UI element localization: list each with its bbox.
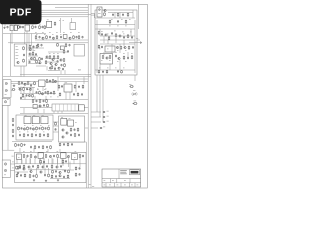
capacitor C68 bbox=[115, 55, 117, 58]
capacitor C82 bbox=[64, 170, 66, 173]
capacitor C89 bbox=[79, 173, 81, 176]
capacitor C38 bbox=[39, 127, 41, 130]
resistor R26 bbox=[39, 57, 41, 61]
strip end block bbox=[79, 105, 85, 111]
transistor Q8 bbox=[52, 58, 54, 60]
value label bbox=[125, 60, 127, 63]
wire drop bbox=[29, 87, 31, 93]
value label bbox=[124, 179, 126, 182]
resistor R62 bbox=[70, 128, 72, 132]
transistor Q14 bbox=[24, 83, 26, 85]
resistor R9 bbox=[34, 57, 36, 61]
capacitor C64 bbox=[123, 36, 125, 39]
capacitor C56 bbox=[103, 111, 106, 113]
value label bbox=[48, 124, 50, 127]
resistor R92 bbox=[57, 154, 59, 158]
transistor Q26 bbox=[119, 35, 121, 37]
value label bbox=[129, 18, 131, 21]
transistor Q4 bbox=[42, 37, 44, 39]
capacitor C53 bbox=[55, 128, 57, 131]
value label bbox=[37, 88, 39, 91]
value label bbox=[16, 57, 18, 60]
wire band drop bbox=[57, 158, 59, 166]
wire top bus 2 bbox=[3, 11, 88, 13]
wire row1 drop bbox=[4, 25, 6, 27]
wire amp top rail bbox=[108, 12, 133, 14]
resistor R16 bbox=[73, 35, 75, 39]
wire stage link bbox=[48, 70, 60, 72]
wire supply stub bbox=[137, 39, 140, 41]
wire bus tap bbox=[91, 121, 101, 123]
capacitor C59 bbox=[117, 20, 119, 23]
wire jack lead bbox=[11, 83, 18, 85]
resistor R113 bbox=[63, 50, 65, 54]
resistor R74 bbox=[98, 31, 100, 35]
resistor R72 bbox=[117, 13, 119, 17]
resistor R3 bbox=[54, 22, 56, 26]
capacitor C44 bbox=[12, 124, 14, 127]
transistor Q7 bbox=[46, 56, 48, 58]
capacitor C37 bbox=[30, 127, 32, 130]
wire cluster rail bbox=[36, 65, 46, 67]
resistor R51 bbox=[23, 133, 25, 137]
value label bbox=[26, 156, 28, 159]
resistor R52 bbox=[31, 133, 33, 137]
value label bbox=[124, 184, 126, 187]
ground bbox=[23, 144, 25, 146]
IC U3 bbox=[63, 35, 67, 39]
wire box feed bbox=[53, 131, 59, 133]
resistor R60 bbox=[42, 145, 44, 149]
value label bbox=[49, 52, 51, 55]
capacitor C28 bbox=[50, 92, 52, 95]
capacitor C30 bbox=[20, 97, 22, 100]
capacitor C14 bbox=[41, 44, 43, 47]
resistor R117 bbox=[62, 160, 64, 164]
capacitor C4 bbox=[7, 26, 9, 29]
resistor R10 bbox=[36, 60, 38, 64]
resistor R24 bbox=[63, 58, 65, 62]
capacitor C35 bbox=[43, 104, 45, 107]
wire stub bbox=[59, 18, 61, 33]
wire drop bbox=[103, 52, 105, 55]
capacitor C97 bbox=[100, 127, 103, 129]
resistor R49 bbox=[42, 126, 44, 130]
wire bus tap bbox=[91, 116, 101, 118]
capacitor C13 bbox=[76, 36, 78, 39]
wire drop bbox=[60, 70, 62, 74]
capacitor C90 bbox=[33, 45, 35, 48]
value label bbox=[61, 116, 63, 119]
wire drop bbox=[42, 86, 44, 91]
value label bbox=[29, 80, 31, 83]
capacitor C12 bbox=[82, 36, 84, 39]
title block divider bbox=[134, 183, 136, 187]
title block divider bbox=[129, 183, 131, 187]
transistor Q10 bbox=[55, 63, 57, 65]
wire drop bbox=[24, 96, 26, 100]
value label bbox=[24, 114, 26, 117]
capacitor C32 bbox=[81, 93, 83, 96]
resistor R67 bbox=[67, 143, 69, 147]
resistor R105 bbox=[24, 173, 26, 177]
wire band drop bbox=[25, 158, 27, 164]
title block row line bbox=[102, 178, 141, 180]
value label bbox=[111, 18, 113, 21]
transistor Q12 bbox=[58, 67, 60, 69]
value label bbox=[117, 49, 119, 52]
title block divider bbox=[129, 179, 131, 183]
resistor R45 bbox=[47, 103, 49, 107]
capacitor C20 bbox=[41, 57, 43, 60]
transistor Q41 bbox=[59, 175, 61, 177]
value label bbox=[12, 167, 14, 170]
title block frame bbox=[102, 169, 141, 187]
value label bbox=[137, 184, 139, 187]
wire band drop bbox=[73, 160, 75, 164]
wire band drop bbox=[69, 162, 71, 171]
value label bbox=[89, 183, 91, 186]
wire stub bbox=[93, 14, 95, 18]
value label bbox=[56, 31, 58, 34]
value label bbox=[52, 33, 54, 36]
wire drop bbox=[132, 10, 134, 18]
wire drop bbox=[107, 40, 109, 44]
value label bbox=[107, 115, 109, 118]
wire mid rail c bbox=[18, 87, 35, 89]
wire drop bbox=[75, 82, 77, 92]
wire divider 1 bbox=[20, 73, 91, 75]
wire amp rail 1 bbox=[95, 17, 135, 19]
resistor R12 bbox=[46, 35, 48, 39]
wire box feed bbox=[53, 125, 59, 127]
capacitor C50 bbox=[74, 128, 76, 131]
value label bbox=[101, 30, 103, 33]
wire drop bbox=[99, 29, 101, 36]
resistor R102 bbox=[17, 166, 19, 170]
wire drop bbox=[23, 66, 25, 77]
wire drop bbox=[123, 40, 125, 46]
resistor R53 bbox=[39, 133, 41, 137]
wire drop bbox=[45, 96, 47, 100]
value label bbox=[125, 25, 127, 28]
wire band drop bbox=[36, 168, 38, 174]
wire divider 4 bbox=[3, 81, 88, 83]
transistor Q13 bbox=[39, 62, 41, 64]
resistor R86 bbox=[106, 70, 108, 74]
relay K8 bbox=[72, 154, 78, 160]
resistor R63 bbox=[77, 128, 79, 132]
preamp section box bbox=[16, 115, 53, 140]
capacitor C5 bbox=[22, 26, 24, 29]
capacitor C33 bbox=[36, 100, 38, 103]
value label bbox=[74, 156, 76, 159]
value label bbox=[47, 19, 49, 22]
resistor R115 bbox=[58, 85, 60, 89]
capacitor C63 bbox=[111, 32, 113, 35]
output stage section box bbox=[15, 152, 86, 182]
capacitor C69 bbox=[127, 57, 129, 60]
relay K3 bbox=[70, 23, 76, 30]
resistor R110 bbox=[29, 45, 31, 49]
IC U4 bbox=[60, 46, 64, 50]
ground bbox=[3, 27, 5, 29]
IC U6 bbox=[64, 84, 72, 92]
wire drop bbox=[54, 67, 56, 71]
value label bbox=[34, 49, 36, 52]
value label bbox=[107, 33, 109, 36]
wire link bbox=[20, 107, 52, 109]
value label bbox=[99, 48, 101, 51]
capacitor C34 bbox=[43, 100, 45, 103]
resistor R29 bbox=[27, 81, 29, 85]
resistor R93 bbox=[79, 154, 81, 158]
value label bbox=[117, 184, 119, 187]
capacitor C36 bbox=[21, 127, 23, 130]
resistor R101 bbox=[68, 169, 70, 173]
value label bbox=[16, 51, 18, 54]
title block divider bbox=[105, 183, 107, 187]
wire drop from amp bbox=[102, 75, 104, 122]
strip divider pin 5 bbox=[70, 104, 72, 111]
relay K7 bbox=[61, 153, 67, 159]
wire amp low rail bbox=[95, 69, 135, 71]
resistor R77 bbox=[127, 34, 129, 38]
driver section box bbox=[59, 116, 85, 142]
wire drop bbox=[37, 109, 39, 113]
capacitor C55 bbox=[71, 143, 73, 146]
value label bbox=[130, 31, 132, 34]
capacitor C19 bbox=[62, 68, 64, 71]
capacitor C2 bbox=[35, 26, 37, 29]
resistor R59 bbox=[34, 145, 36, 149]
transistor Q16 bbox=[41, 93, 43, 95]
resistor R108 bbox=[75, 166, 77, 170]
wire jack lead bbox=[11, 90, 12, 92]
transistor Q5 bbox=[52, 37, 54, 39]
value label bbox=[59, 19, 61, 22]
svg-text:TP: TP bbox=[78, 69, 81, 72]
value label bbox=[107, 48, 109, 51]
wire chain bbox=[8, 42, 88, 44]
capacitor C15 bbox=[57, 60, 59, 63]
wire drop bbox=[28, 34, 30, 51]
wire cluster rail bbox=[28, 63, 40, 65]
transistor Q35 bbox=[42, 166, 44, 168]
relay K1 bbox=[10, 25, 13, 30]
resistor R94 bbox=[23, 165, 25, 169]
transistor Q3 bbox=[30, 57, 32, 59]
PDF badge bbox=[0, 0, 42, 24]
value label bbox=[4, 174, 6, 177]
value label bbox=[107, 120, 109, 123]
resistor R103 bbox=[16, 166, 18, 170]
value label bbox=[36, 33, 38, 36]
value label bbox=[63, 19, 65, 22]
power flag +V bbox=[141, 42, 142, 44]
transistor Q32 bbox=[49, 155, 51, 157]
title block divider bbox=[110, 179, 112, 183]
value label bbox=[5, 93, 7, 96]
transistor Q22 bbox=[66, 132, 68, 134]
wire band drop bbox=[21, 160, 23, 164]
resistor R81 bbox=[102, 55, 104, 59]
resistor R54 bbox=[47, 133, 49, 137]
wire band comb bbox=[39, 159, 41, 164]
resistor R83 bbox=[123, 56, 125, 60]
wire band link bbox=[62, 169, 74, 171]
resistor R14 bbox=[64, 35, 66, 39]
connector J3 bbox=[4, 101, 6, 103]
transistor Q40 bbox=[23, 168, 25, 170]
wire drop bbox=[119, 44, 121, 53]
value label bbox=[32, 23, 34, 26]
value label bbox=[18, 156, 20, 159]
value label bbox=[123, 67, 125, 70]
value label bbox=[58, 156, 60, 159]
value label bbox=[53, 52, 55, 55]
value label bbox=[24, 124, 26, 127]
value label bbox=[30, 150, 32, 153]
value label bbox=[33, 114, 35, 117]
wire cluster rail bbox=[45, 58, 59, 60]
value label bbox=[109, 25, 111, 28]
value label bbox=[32, 124, 34, 127]
resistor R80 bbox=[98, 45, 100, 49]
wire chain rail bbox=[35, 39, 88, 41]
value label bbox=[40, 105, 42, 108]
resistor R8 bbox=[32, 52, 34, 56]
capacitor C73 bbox=[53, 155, 55, 158]
value label bbox=[44, 88, 46, 91]
value label bbox=[117, 25, 119, 28]
wire bus tap bbox=[91, 111, 101, 113]
wire band drop bbox=[68, 158, 70, 167]
capacitor C39 bbox=[45, 127, 47, 130]
resistor R32 bbox=[52, 79, 54, 83]
capacitor C60 bbox=[112, 13, 114, 16]
wire feed from above bbox=[19, 148, 21, 152]
wire drop bbox=[119, 13, 121, 19]
resistor R87 bbox=[121, 70, 123, 74]
resistor R73 bbox=[127, 13, 129, 17]
wire duct bottom bbox=[2, 149, 14, 151]
capacitor C94 bbox=[61, 85, 63, 88]
wire bus link bbox=[91, 13, 95, 15]
IC U10 bbox=[41, 117, 48, 124]
value label bbox=[7, 98, 9, 101]
transistor Q24 bbox=[104, 9, 106, 11]
wire band drop bbox=[29, 158, 31, 164]
wire drop bbox=[57, 111, 59, 113]
wire band low rail bbox=[50, 178, 70, 180]
resistor R106 bbox=[51, 174, 53, 178]
wire stub bbox=[128, 86, 131, 88]
wire band comb bbox=[21, 159, 23, 164]
wire band rail low bbox=[15, 171, 28, 173]
wire cluster rail bbox=[28, 55, 38, 57]
value label bbox=[134, 100, 137, 103]
value label bbox=[104, 179, 106, 182]
IC U11 bbox=[61, 118, 67, 125]
IC U5 bbox=[39, 80, 46, 87]
resistor R76 bbox=[115, 33, 117, 37]
wire amp mid rail bbox=[100, 43, 135, 45]
capacitor C85 bbox=[20, 174, 22, 177]
capacitor C46 bbox=[18, 144, 20, 147]
wire bottom-left bus rail bbox=[85, 142, 87, 188]
value label bbox=[45, 88, 47, 91]
wire drop bbox=[20, 87, 22, 94]
capacitor C24 bbox=[49, 80, 51, 83]
transistor Q34 bbox=[28, 166, 30, 168]
wire mid band rail bbox=[20, 99, 88, 101]
wire drop bbox=[69, 92, 71, 100]
wire band drop bbox=[48, 168, 50, 174]
resistor R75 bbox=[108, 36, 110, 40]
wire drop bbox=[46, 66, 48, 71]
resistor R65 bbox=[55, 122, 57, 126]
capacitor C71 bbox=[117, 70, 119, 73]
capacitor C88 bbox=[79, 167, 81, 170]
relay K4 bbox=[74, 44, 84, 56]
relay K6 bbox=[38, 153, 44, 159]
transistor Q31 bbox=[34, 156, 36, 158]
value label bbox=[12, 155, 14, 158]
resistor R34 bbox=[82, 85, 84, 89]
capacitor C45 bbox=[12, 135, 14, 138]
capacitor C91 bbox=[69, 44, 71, 47]
wire band drop bbox=[51, 158, 53, 166]
capacitor C77 bbox=[46, 165, 48, 168]
logo box bbox=[130, 170, 140, 175]
wire feed from above bbox=[47, 149, 49, 152]
resistor R27 bbox=[12, 89, 16, 91]
value label bbox=[131, 184, 133, 187]
value label bbox=[46, 150, 48, 153]
capacitor C61 bbox=[122, 13, 124, 16]
value label bbox=[99, 33, 101, 36]
connector J5 bbox=[4, 163, 6, 165]
value label bbox=[42, 156, 44, 159]
resistor R99 bbox=[48, 173, 50, 177]
value label bbox=[29, 49, 31, 52]
value label bbox=[60, 33, 62, 36]
wire amp rail 3 bbox=[95, 28, 135, 30]
capacitor C52 bbox=[78, 134, 80, 137]
wire band comb bbox=[43, 159, 45, 164]
wire mid seg bbox=[46, 82, 56, 84]
value label bbox=[123, 52, 125, 55]
capacitor C49 bbox=[46, 146, 48, 149]
value label bbox=[42, 114, 44, 117]
capacitor C65 bbox=[131, 36, 133, 39]
resistor R95 bbox=[37, 165, 39, 169]
value label bbox=[129, 83, 131, 86]
wire amp side rail bbox=[96, 20, 98, 73]
wire trunk bbox=[10, 34, 12, 77]
value label bbox=[34, 156, 36, 159]
wire band drop bbox=[40, 158, 42, 165]
resistor R15 bbox=[78, 35, 80, 39]
resistor R47 bbox=[27, 126, 29, 130]
capacitor C86 bbox=[55, 175, 57, 178]
resistor R100 bbox=[52, 170, 54, 174]
value label bbox=[40, 124, 42, 127]
resistor R23 bbox=[51, 65, 53, 69]
value label bbox=[20, 88, 22, 91]
transistor Q38 bbox=[40, 171, 42, 173]
